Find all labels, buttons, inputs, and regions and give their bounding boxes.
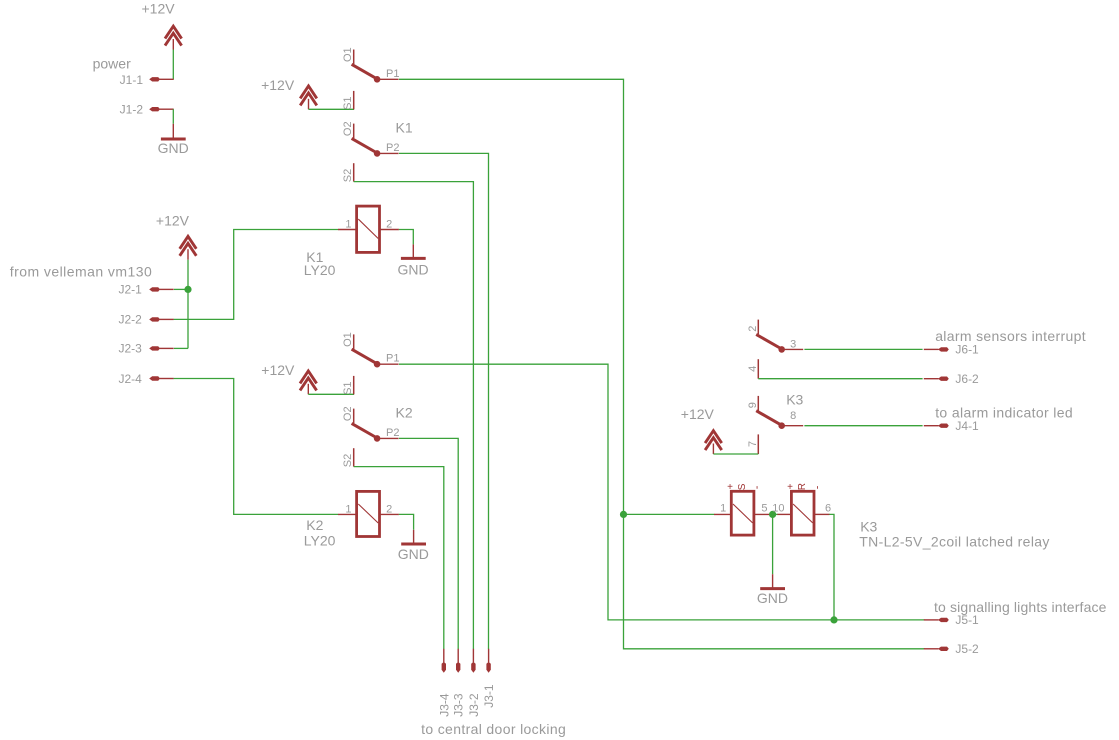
label J6-2	[955, 372, 979, 386]
wire K2 coil pin2 to GND	[399, 514, 414, 529]
pin label 10 (K3)	[772, 502, 784, 514]
svg-text:1: 1	[345, 503, 351, 515]
connector pin J1-2	[149, 107, 174, 111]
label to central door locking (J3 connector name)	[421, 721, 566, 737]
label from velleman vm130 (J2 connector name)	[10, 264, 152, 280]
label J3-4	[437, 693, 451, 717]
pin label 2 (K3)	[747, 326, 759, 332]
label K3 (contacts)	[786, 392, 803, 408]
label J5-2	[955, 642, 979, 656]
pin 5 line (K3 coil S)	[754, 513, 771, 515]
svg-text:+12V: +12V	[261, 362, 295, 378]
pin label 6 (K3)	[825, 502, 831, 514]
svg-text:LY20: LY20	[304, 262, 336, 278]
wire K3 pin3 to J6-1	[804, 348, 922, 350]
label J2-4	[118, 372, 142, 386]
svg-text:TN-L2-5V_2coil latched relay: TN-L2-5V_2coil latched relay	[859, 533, 1050, 549]
wire J1-2 to GND	[172, 109, 174, 124]
label K1 (contacts)	[396, 119, 413, 135]
connector pin J2-1	[149, 287, 174, 291]
label +12V (K2 contacts)	[261, 362, 295, 378]
svg-text:J2-1: J2-1	[118, 283, 142, 297]
wire K1 P1 to J5-2	[399, 79, 925, 649]
svg-text:O1: O1	[342, 47, 354, 62]
svg-text:+: +	[787, 482, 793, 493]
svg-text:S1: S1	[342, 96, 354, 109]
svg-text:J6-2: J6-2	[955, 372, 979, 386]
svg-text:J3-3: J3-3	[452, 693, 466, 717]
wire +12V to K1 S1	[309, 108, 355, 110]
svg-text:+: +	[727, 482, 733, 493]
svg-text:GND: GND	[397, 261, 428, 277]
svg-text:2: 2	[386, 218, 392, 230]
wire K2 P2 to J3-3	[399, 438, 458, 649]
polarity label - (coil S)	[751, 485, 763, 489]
pin 10 line (K3 coil R)	[777, 513, 791, 515]
svg-text:10: 10	[772, 502, 784, 514]
svg-text:S2: S2	[342, 454, 354, 467]
svg-text:P1: P1	[386, 353, 399, 365]
svg-text:8: 8	[790, 410, 796, 422]
ground symbol GND (K1 coil)	[401, 244, 426, 258]
label +12V (top-left)	[142, 1, 176, 17]
svg-text:power: power	[93, 55, 131, 71]
label alarm sensors interrupt (J6)	[935, 328, 1086, 344]
svg-text:+12V: +12V	[142, 1, 176, 17]
pin label O2 (K1)	[342, 121, 354, 136]
relay contact K2 O2-P2	[352, 409, 399, 442]
pin label 8 (K3)	[790, 410, 796, 422]
wire coil common to GND	[772, 514, 774, 574]
svg-text:5: 5	[761, 502, 767, 514]
junction coil common (pins 5-10)	[769, 511, 776, 518]
pin label S2 (K2)	[342, 454, 354, 467]
connector pin J3-4	[442, 649, 446, 673]
svg-text:P2: P2	[386, 427, 399, 439]
svg-text:J2-4: J2-4	[118, 372, 142, 386]
svg-text:from velleman vm130: from velleman vm130	[10, 264, 152, 280]
connector pin J2-4	[149, 376, 174, 380]
pin label 5 (K3)	[761, 502, 767, 514]
svg-text:4: 4	[747, 366, 759, 372]
wire J2-4 to K2 coil pin 1	[174, 379, 339, 515]
svg-text:K3: K3	[786, 392, 803, 408]
relay contact K3 9-8	[756, 396, 803, 429]
pin label P1 (K1)	[386, 68, 399, 80]
wire +12V to K2 S1	[308, 393, 354, 395]
wire pin5 to pin10	[770, 513, 778, 515]
connector pin J5-2	[924, 647, 949, 651]
value label LY20 (K1)	[304, 262, 336, 278]
svg-text:1: 1	[720, 502, 726, 514]
svg-text:K1: K1	[396, 119, 413, 135]
pin label 3 (K3)	[790, 339, 796, 351]
relay contact K2 O1-P1	[352, 334, 399, 367]
svg-text:O2: O2	[342, 406, 354, 421]
label GND (J1)	[158, 140, 189, 156]
label K2 (coil)	[306, 517, 323, 533]
relay coil K1 LY20	[338, 206, 399, 252]
pin label O1 (K1)	[342, 47, 354, 62]
label GND (K1 coil)	[397, 261, 428, 277]
svg-text:P1: P1	[386, 68, 399, 80]
wire K3 pin4 to J6-2	[758, 378, 922, 380]
pin 4 (K3)	[757, 359, 759, 379]
svg-text:7: 7	[747, 441, 759, 447]
label J3-3	[452, 693, 466, 717]
connector pin J1-1	[149, 77, 174, 81]
connector pin J2-3	[149, 346, 174, 350]
wire K3 pin6 to J5-1	[829, 514, 834, 620]
pin label 4 (K3)	[747, 366, 759, 372]
svg-text:R: R	[797, 483, 808, 490]
junction on K1-P1 net at K3 coil S feed	[620, 511, 627, 518]
svg-text:J4-1: J4-1	[955, 419, 979, 433]
svg-text:J2-2: J2-2	[118, 313, 142, 327]
wire J2-2 to K1 coil pin 1	[174, 230, 339, 320]
pin label 1 (K3 coil S)	[720, 502, 726, 514]
svg-text:+12V: +12V	[681, 406, 715, 422]
pin 6 line (K3 coil R)	[814, 513, 830, 515]
label J4-1	[955, 419, 979, 433]
pin 7 (K3)	[757, 434, 759, 454]
power supply symbol +12V (K1 contacts)	[300, 86, 317, 109]
relay contact K1 O1-P1	[352, 50, 399, 83]
svg-text:+12V: +12V	[156, 213, 190, 229]
label power (J1 connector name)	[93, 55, 131, 71]
svg-text:J1-1: J1-1	[120, 73, 144, 87]
label +12V (J2)	[156, 213, 190, 229]
connector pin J2-2	[149, 317, 174, 321]
label J3-2	[467, 693, 481, 717]
pin S1 (K1)	[353, 91, 355, 109]
relay contact K3 2-3	[756, 320, 803, 353]
pin label P2 (K2)	[386, 427, 399, 439]
pin S1 (K2)	[353, 376, 355, 394]
label J2-2	[118, 313, 142, 327]
label J2-1	[118, 283, 142, 297]
coil name label S	[737, 483, 748, 490]
svg-text:P2: P2	[386, 142, 399, 154]
label K1 (coil)	[306, 249, 323, 265]
svg-text:J6-1: J6-1	[955, 343, 979, 357]
label +12V (K1 contacts)	[261, 77, 295, 93]
svg-text:S2: S2	[342, 169, 354, 182]
connector pin J6-2	[924, 377, 949, 381]
svg-text:6: 6	[825, 502, 831, 514]
power supply symbol +12V (K3 pin7)	[705, 431, 722, 454]
svg-text:2: 2	[747, 326, 759, 332]
pin label S2 (K1)	[342, 169, 354, 182]
connector pin J4-1	[924, 424, 949, 428]
wire J2-1 to junction	[174, 288, 188, 290]
svg-text:O1: O1	[342, 332, 354, 347]
label J2-3	[118, 342, 142, 356]
pin label O2 (K2)	[342, 406, 354, 421]
svg-text:3: 3	[790, 339, 796, 351]
svg-text:J3-4: J3-4	[437, 693, 451, 717]
svg-text:1: 1	[345, 218, 351, 230]
ground symbol GND (K3 coils)	[760, 574, 785, 588]
connector pin J3-2	[471, 649, 475, 673]
svg-text:J3-2: J3-2	[467, 693, 481, 717]
label J5-1	[955, 613, 979, 627]
label K3 (coil)	[860, 518, 877, 534]
pin label 2 (K2 coil)	[386, 503, 392, 515]
connector pin J3-3	[456, 649, 460, 673]
svg-text:J2-3: J2-3	[118, 342, 142, 356]
polarity label + (coil R)	[787, 482, 793, 493]
wire K1 S2 to J3-2	[354, 182, 474, 649]
relay contact K1 O2-P2	[352, 124, 399, 157]
svg-text:J1-2: J1-2	[120, 103, 144, 117]
junction J5-1 and K3 pin 6	[830, 616, 837, 623]
pin label S1 (K2)	[342, 381, 354, 394]
wire K1 P2 to J3-1	[399, 153, 489, 649]
svg-text:K2: K2	[396, 404, 413, 420]
connector pin J6-1	[924, 347, 949, 351]
wire J2-3 stub	[174, 347, 188, 349]
power supply symbol +12V (J1)	[165, 26, 182, 49]
coil R of K3 (reset coil)	[791, 491, 814, 535]
pin label 2 (K1 coil)	[386, 218, 392, 230]
svg-text:K3: K3	[860, 518, 877, 534]
label to alarm indicator led (J4)	[935, 404, 1073, 420]
svg-text:to alarm indicator led: to alarm indicator led	[935, 404, 1073, 420]
connector pin J5-1	[924, 618, 949, 622]
svg-text:-: -	[751, 485, 763, 489]
coil name label R	[797, 483, 808, 490]
value label TN-L2-5V_2coil latched relay	[859, 533, 1050, 549]
svg-text:J3-1: J3-1	[482, 684, 496, 708]
label GND (K3 coils)	[757, 590, 788, 606]
junction J2-1 +12V	[184, 286, 191, 293]
relay coil K2 LY20	[338, 491, 399, 536]
pin label P2 (K1)	[386, 142, 399, 154]
label J1-2	[120, 103, 144, 117]
label to signalling lights interface (J5)	[934, 599, 1107, 615]
label GND (K2 coil)	[398, 546, 429, 562]
label J3-1	[482, 684, 496, 708]
svg-text:-: -	[812, 485, 824, 489]
svg-text:GND: GND	[398, 546, 429, 562]
wire K2 P1 to J5-1	[399, 364, 925, 620]
value label LY20 (K2)	[304, 532, 336, 548]
label J1-1	[120, 73, 144, 87]
pin label S1 (K1)	[342, 96, 354, 109]
svg-text:GND: GND	[158, 140, 189, 156]
svg-text:GND: GND	[757, 590, 788, 606]
svg-text:J5-1: J5-1	[955, 613, 979, 627]
connector pin J3-1	[486, 649, 490, 673]
pin label 1 (K1 coil)	[345, 218, 351, 230]
pin label 9 (K3)	[747, 402, 759, 408]
pin label O1 (K2)	[342, 332, 354, 347]
label K2 (contacts)	[396, 404, 413, 420]
svg-text:J5-2: J5-2	[955, 642, 979, 656]
svg-text:S: S	[737, 483, 748, 490]
wire +12V down J2-1 to J2-3	[187, 260, 189, 349]
wire K2 S2 to J3-4	[354, 467, 444, 649]
svg-text:9: 9	[747, 402, 759, 408]
pin S2 (K1)	[353, 163, 355, 181]
label +12V (K3 pin7)	[681, 406, 715, 422]
wire K1 coil pin2 to GND	[399, 230, 413, 245]
wire J1-1 to +12V	[172, 50, 174, 80]
coil S of K3 (set coil)	[714, 491, 754, 535]
svg-text:O2: O2	[342, 121, 354, 136]
ground symbol GND (K2 coil)	[401, 530, 426, 544]
pin S2 (K2)	[353, 448, 355, 466]
ground symbol GND (J1)	[161, 124, 186, 139]
power supply symbol +12V (K2 contacts)	[300, 371, 317, 394]
polarity label + (coil S)	[727, 482, 733, 493]
svg-text:+12V: +12V	[261, 77, 295, 93]
svg-text:S1: S1	[342, 381, 354, 394]
wire +12V to K3 pin7	[713, 453, 758, 455]
svg-text:2: 2	[386, 503, 392, 515]
pin label 7 (K3)	[747, 441, 759, 447]
polarity label - (coil R)	[812, 485, 824, 489]
svg-text:to central door locking: to central door locking	[421, 721, 566, 737]
power supply symbol +12V (J2)	[180, 236, 197, 259]
svg-text:K2: K2	[306, 517, 323, 533]
wire K1-P1 net to K3 coil S pin 1	[624, 513, 715, 515]
pin label 1 (K2 coil)	[345, 503, 351, 515]
svg-text:alarm sensors interrupt: alarm sensors interrupt	[935, 328, 1086, 344]
wire K3 pin8 to J4-1	[804, 425, 922, 427]
label J6-1	[955, 343, 979, 357]
pin label P1 (K2)	[386, 353, 399, 365]
svg-text:LY20: LY20	[304, 532, 336, 548]
